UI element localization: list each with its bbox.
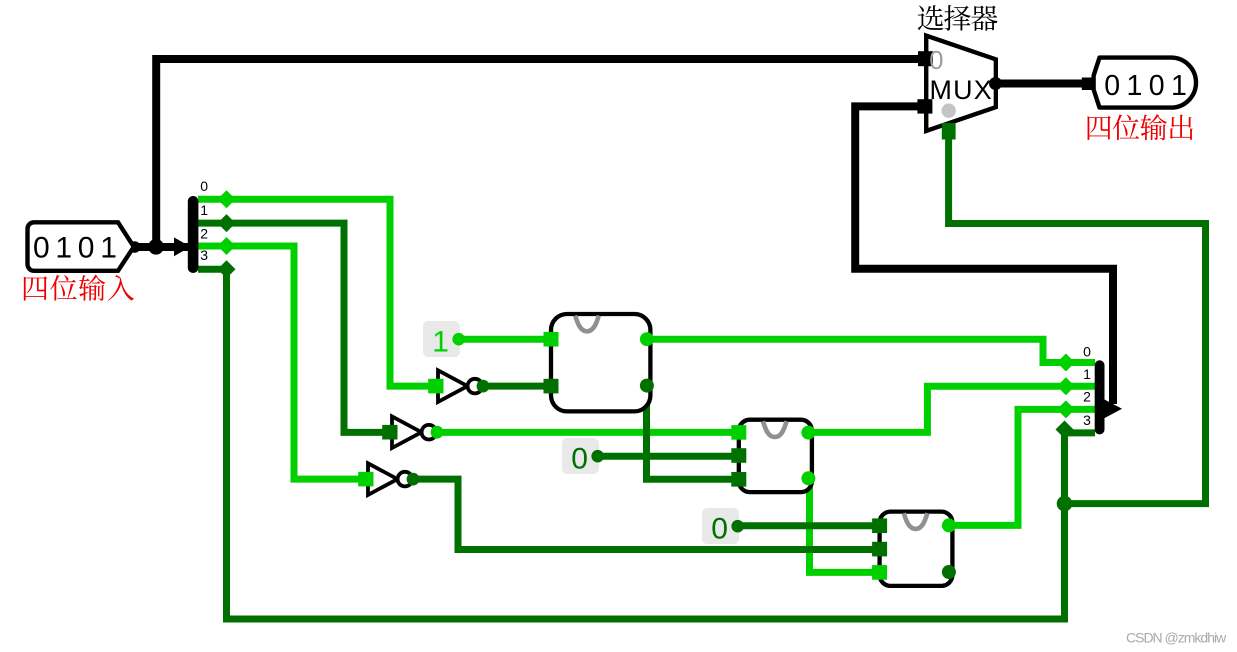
splitter SP1 pin3 label — [200, 247, 208, 263]
wire splitter SP2 pin3 stub — [1065, 429, 1096, 436]
splitter SP2 pin3 label — [1083, 412, 1091, 428]
multiplexer U4 (MUX) — [917, 36, 1002, 140]
wire constant K1 output to subcircuit U1 input 1 — [458, 336, 552, 343]
inverter G1 (bit0 NOT gate) — [428, 370, 489, 402]
label for input pin P1 (four-bit input) — [24, 275, 134, 301]
splitter SP2 pin1 label — [1083, 366, 1091, 382]
svg-text:3: 3 — [200, 247, 208, 263]
inverter G3 (bit2 NOT gate) — [358, 463, 419, 495]
svg-text:CSDN @zmkdhiw: CSDN @zmkdhiw — [1126, 630, 1227, 646]
wire bit3 from splitter SP1 pin3 along bottom to node N1 — [198, 269, 1065, 619]
watermark — [1126, 630, 1227, 646]
label for multiplexer U4 (selector) — [918, 5, 998, 31]
svg-text:0 1 0 1: 0 1 0 1 — [33, 232, 116, 265]
svg-text:1: 1 — [1083, 366, 1091, 382]
wire input pin P1 to splitter SP1 root — [135, 243, 188, 251]
splitter SP2 pin0 label — [1083, 344, 1091, 360]
wire subcircuit U2 output 1 to splitter SP2 pin1 — [808, 386, 1095, 432]
splitter SP2 body — [1095, 360, 1105, 434]
splitter SP2 pin2 diamond — [1057, 400, 1075, 418]
wire inverter G3 output to subcircuit U3 input 2 — [412, 479, 873, 549]
wire constant K3 output to subcircuit U3 input 1 — [739, 522, 873, 529]
inverter G2 (bit1 NOT gate) — [382, 416, 443, 448]
splitter SP2 pin2 label — [1083, 388, 1091, 404]
output pin P2 (four-bit output 0101) — [1082, 58, 1196, 108]
node N1 junction — [1057, 496, 1073, 512]
wire node N2 up left side to multiplexer U4 input 0 — [156, 59, 925, 247]
wire inverter G1 output to subcircuit U1 input 2 — [482, 383, 552, 390]
wire subcircuit U2 output 2 to subcircuit U3 input 3 — [810, 478, 874, 572]
svg-text:3: 3 — [1083, 412, 1091, 428]
wire subcircuit U3 output 1 to splitter SP2 pin2 — [949, 409, 1095, 525]
splitter SP1 pin2 label — [200, 226, 208, 242]
svg-text:0: 0 — [929, 47, 943, 75]
wire bit1 from splitter SP1 pin1 to inverter G2 input — [198, 223, 384, 432]
wire subcircuit U1 output 1 to splitter SP2 pin0 — [647, 339, 1095, 362]
subcircuit U1 — [544, 314, 654, 411]
splitter SP2 pin1 diamond — [1057, 377, 1075, 395]
svg-text:0 1 0 1: 0 1 0 1 — [1104, 70, 1186, 102]
splitter SP1 pin0 diamond — [218, 190, 236, 208]
constant K3 (value 0) — [702, 508, 744, 545]
label for output pin P2 (four-bit output) — [1088, 114, 1193, 140]
splitter SP1 pin1 label — [200, 202, 208, 218]
splitter SP1 pin1 diamond — [218, 214, 236, 232]
svg-text:0: 0 — [571, 442, 588, 475]
svg-text:1: 1 — [432, 325, 449, 358]
svg-text:0: 0 — [200, 178, 208, 194]
splitter SP1 pin0 label — [200, 178, 208, 194]
node N2 junction — [148, 239, 164, 255]
wire splitter SP2 root to multiplexer U4 input 1 — [855, 106, 1113, 404]
wire node N1 to multiplexer U4 select input — [949, 128, 1206, 504]
svg-text:1: 1 — [200, 202, 208, 218]
svg-text:2: 2 — [200, 226, 208, 242]
wire constant K2 output to subcircuit U2 input 2 — [598, 453, 732, 460]
wire multiplexer U4 output to output pin P2 — [995, 80, 1085, 88]
constant K2 (value 0) — [562, 438, 604, 475]
wire bit0 from splitter SP1 pin0 to inverter G1 input — [198, 199, 430, 386]
wire inverter G2 output to subcircuit U2 input 1 — [436, 429, 732, 436]
splitter SP1 body — [188, 196, 199, 273]
splitter SP1 root arrow — [174, 237, 191, 256]
svg-text:0: 0 — [711, 512, 728, 545]
splitter SP1 pin2 diamond — [218, 237, 236, 255]
splitter SP2 pin3 diamond — [1056, 421, 1074, 439]
subcircuit U3 — [872, 512, 956, 586]
wire subcircuit U1 output 2 to subcircuit U2 input 3 — [647, 386, 733, 480]
splitter SP1 pin3 diamond — [218, 260, 236, 278]
splitter SP2 pin0 diamond — [1057, 354, 1075, 372]
constant K1 (value 1) — [423, 321, 465, 358]
wire bit2 from splitter SP1 pin2 to inverter G3 input — [198, 246, 361, 479]
splitter SP2 root arrow — [1104, 399, 1123, 419]
svg-text:2: 2 — [1083, 388, 1091, 404]
input pin P1 (four-bit input 0101) — [27, 222, 133, 270]
subcircuit U2 — [731, 420, 815, 492]
svg-text:MUX: MUX — [930, 75, 993, 105]
input pin P1 tip node — [129, 241, 141, 253]
svg-text:0: 0 — [1083, 344, 1091, 360]
